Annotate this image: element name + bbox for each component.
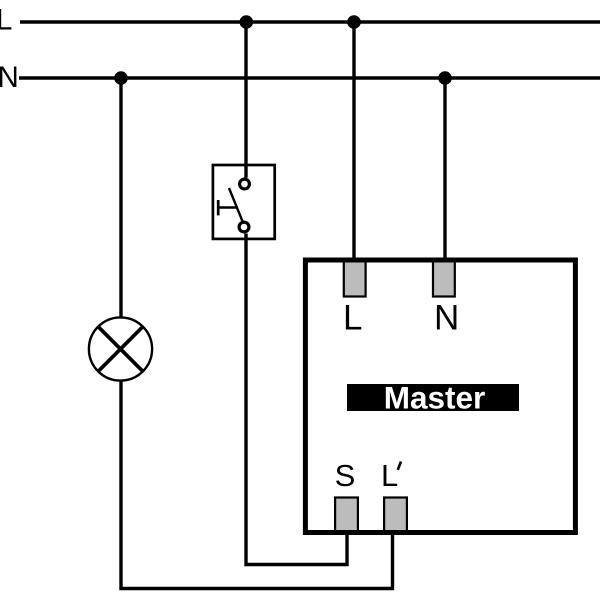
svg-text:N: N (0, 61, 19, 94)
svg-text:L: L (381, 458, 398, 493)
svg-text:L: L (343, 298, 362, 337)
svg-text:S: S (335, 458, 356, 493)
svg-text:N: N (434, 298, 459, 337)
svg-text:Master: Master (384, 380, 486, 416)
svg-text:L: L (0, 3, 12, 36)
